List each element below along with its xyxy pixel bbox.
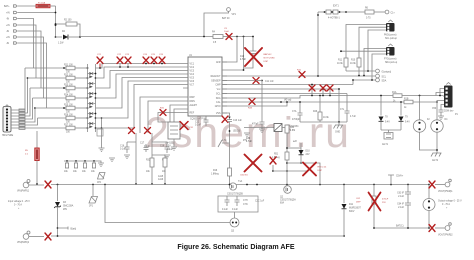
svg-text:DNP: DNP (356, 202, 361, 204)
svg-text:R44: R44 (290, 127, 295, 129)
svg-text:470pF: 470pF (252, 124, 259, 126)
svg-text:24V: 24V (306, 154, 311, 156)
svg-text:C7H: C7H (243, 200, 248, 202)
diode D12 small (218, 140, 230, 147)
wire scl conn pin3 (368, 30, 386, 71)
svg-text:AGT2: AGT2 (432, 159, 439, 162)
fuse F3 (crossed) (429, 181, 435, 188)
svg-text:R46: R46 (313, 111, 318, 113)
resistor R23 row3 (30, 85, 88, 94)
wire P1 pin4 (437, 101, 444, 103)
svg-text:CSD17576Q5A: CSD17576Q5A (280, 199, 296, 202)
fuse F4 (crossed) (429, 225, 435, 232)
resistor R27 row7 (64, 125, 88, 134)
svg-text:4.7uF: 4.7uF (240, 59, 246, 61)
crossed resistor R52 (270, 157, 276, 172)
svg-text:DNP: DNP (264, 61, 269, 63)
wire gpio bus (222, 102, 287, 106)
capacitor C7L (340, 94, 356, 123)
capacitor row C61-C64 (64, 160, 101, 173)
svg-text:C16: C16 (120, 146, 125, 148)
wire cal bus (222, 101, 437, 103)
svg-text:9.4V: 9.4V (405, 122, 410, 124)
svg-text:R53 2.2k: R53 2.2k (318, 167, 328, 169)
capacitor C16 (120, 142, 136, 159)
resistor R1B (404, 99, 413, 110)
connector P6G SCL pull-up (384, 20, 398, 40)
svg-text:0 - 70 A: 0 - 70 A (442, 203, 450, 206)
wire U1 dmn (148, 101, 183, 133)
isolator U2 (244, 124, 299, 132)
wire main mid bus (51, 184, 429, 186)
motor M3 output (423, 185, 462, 229)
svg-text:VC7: VC7 (190, 85, 195, 87)
connector J3 top-left pins (4, 5, 17, 45)
resistor R45 (313, 95, 329, 122)
svg-text:D10: D10 (306, 151, 311, 153)
svg-text:C13 1uF: C13 1uF (233, 120, 242, 122)
svg-text:VC5: VC5 (190, 78, 195, 80)
svg-text:470uF: 470uF (382, 199, 389, 201)
capacitor C13 (crossed) (222, 116, 242, 185)
wire P1 pin2 (436, 93, 444, 96)
resistor array RN1 (19, 109, 25, 129)
motor M2 (431, 102, 448, 132)
wire fan row3 to U1 (96, 71, 184, 89)
svg-text:C64 IF: C64 IF (397, 204, 404, 206)
wire j2-7 (11, 127, 64, 129)
wire AVR to rail (222, 37, 237, 63)
svg-text:LM4132: LM4132 (165, 143, 174, 145)
svg-text:GPIO: GPIO (215, 106, 221, 108)
svg-text:4.7uF: 4.7uF (350, 116, 356, 118)
svg-text:HRG7SRE: HRG7SRE (2, 135, 14, 137)
svg-text:VIN(PWR)1: VIN(PWR)1 (17, 191, 30, 193)
capacitor C43 (crossed) (327, 85, 333, 96)
wire fan row7 to U1 (96, 85, 184, 129)
capacitor C17 (140, 143, 150, 153)
wire cap C11 vertical (261, 81, 263, 123)
svg-text:SDA: SDA (382, 80, 387, 83)
resistor R21 row1 (25, 65, 88, 74)
capacitor C15 (crossed) (145, 128, 151, 134)
svg-text:9.4V: 9.4V (385, 122, 390, 124)
wire sda conn pin2 (341, 50, 386, 52)
wire sda conn pin1 (364, 49, 386, 76)
capacitor C21 (crossed) (97, 54, 103, 69)
wire pin2 bus (18, 12, 56, 14)
svg-text:28V: 28V (63, 209, 68, 211)
wire scl conn pin2 (359, 27, 386, 58)
resistor R11 (337, 58, 348, 71)
wire j2-1 (11, 68, 25, 110)
wire to VOUT- (435, 227, 445, 229)
wire bottom bus (51, 235, 344, 237)
svg-text:R16: R16 (213, 170, 218, 172)
vertical net V+ (55, 6, 57, 37)
svg-text:VC1: VC1 (190, 64, 195, 66)
svg-text:VOUT(PWR)2: VOUT(PWR)2 (438, 235, 453, 237)
diode ladder diodes (88, 72, 97, 129)
svg-text:ALERT: ALERT (190, 104, 198, 107)
resistor R1A (392, 91, 402, 103)
svg-text:C5VA+: C5VA+ (396, 175, 404, 178)
wire SDA out (352, 78, 387, 84)
svg-text:C18: C18 (160, 146, 165, 148)
connector J2 bottom-left (2, 105, 14, 137)
diode D1 (56, 31, 81, 45)
resistor R33 (152, 155, 167, 185)
wire to R5 (36, 131, 38, 148)
svg-text:C11 1nF: C11 1nF (265, 81, 274, 83)
wire sda bus (222, 96, 443, 99)
resistor R51 (272, 133, 289, 185)
svg-text:SDA pull-up: SDA pull-up (385, 61, 398, 64)
wire main top rail (80, 36, 213, 38)
svg-text:VSS: VSS (216, 113, 221, 115)
diode D11 MUR1560 (342, 185, 362, 237)
input voltage note (8, 200, 30, 210)
capacitor C50 + ground (432, 105, 444, 120)
svg-text:+IN: +IN (6, 25, 10, 27)
svg-text:4700pF: 4700pF (292, 119, 300, 121)
svg-text:C10: C10 (240, 56, 245, 58)
capacitor C26 (crossed) (159, 54, 165, 64)
wire vcc bus (222, 88, 339, 90)
resistor R26 row6 (38, 115, 89, 124)
top right rail (318, 6, 395, 20)
transistor Q2 (280, 186, 296, 205)
wire vss down (222, 113, 230, 117)
wire REGOUT rail (222, 37, 244, 71)
resistor R25 row5 (35, 105, 88, 114)
svg-text:D2W dev: D2W dev (444, 111, 454, 113)
ground under C11 (259, 129, 265, 133)
wire pin6 (18, 37, 44, 98)
svg-text:VP1: VP1 (232, 14, 237, 16)
crossed cap C62 (356, 185, 389, 229)
svg-text:(SD18): (SD18) (233, 131, 241, 133)
svg-text:4.7uF: 4.7uF (246, 141, 252, 143)
svg-text:GND: GND (335, 132, 340, 134)
svg-text:2.1uF: 2.1uF (398, 207, 404, 209)
ground mid (slanted) (334, 122, 344, 134)
fuse F1 (red highlighted) (36, 1, 56, 7)
svg-text:SCL: SCL (382, 77, 387, 79)
svg-text:SDA: SDA (216, 97, 221, 100)
motor M1 (413, 96, 430, 133)
svg-text:1.8M: 1.8M (290, 130, 295, 132)
svg-text:P6G(comm): P6G(comm) (384, 35, 397, 37)
svg-text:DMP: DMP (190, 97, 196, 99)
resistor R32 (146, 158, 154, 173)
battery terminal VBAT (203, 8, 236, 38)
svg-text:+IN: +IN (6, 37, 10, 39)
diode ladder extra diodes (89, 75, 93, 128)
ground rail mid (300, 89, 347, 122)
svg-text:VC6: VC6 (190, 81, 195, 83)
resistor R43 (crossed) (248, 99, 255, 110)
svg-text:Figure 26. Schematic Diagram A: Figure 26. Schematic Diagram AFE (177, 243, 294, 251)
svg-text:10.9k: 10.9k (337, 63, 343, 65)
svg-text:C60 NU: C60 NU (240, 175, 248, 177)
svg-text:C17: C17 (140, 143, 145, 145)
svg-text:VC3: VC3 (190, 71, 195, 73)
wire pin1 to fuse (18, 5, 36, 7)
svg-text:Input voltage 0 - 25 V: Input voltage 0 - 25 V (8, 200, 30, 203)
zener D8 (379, 95, 391, 130)
svg-text:AVR: AVR (216, 61, 221, 64)
buzzer Y1 (381, 130, 401, 146)
wire fan row2 to U1 (96, 67, 184, 78)
output terminal VOUT- (438, 223, 453, 237)
wire gate net (273, 163, 320, 185)
svg-text:SCL: SCL (216, 94, 221, 96)
svg-text:C12: C12 (195, 122, 200, 124)
ground mid-low (243, 133, 250, 142)
svg-text:C63 IF: C63 IF (397, 193, 404, 195)
svg-text:0.1uF: 0.1uF (232, 209, 238, 211)
svg-text:BAT54C: BAT54C (264, 53, 273, 56)
svg-text:25V: 25V (382, 202, 386, 204)
wire U1 gpio2 (174, 109, 183, 122)
svg-text:CAL: CAL (216, 101, 221, 104)
svg-text:10.9k: 10.9k (323, 117, 329, 119)
svg-text:(40 ua): (40 ua) (284, 100, 292, 102)
svg-text:1.2W: 1.2W (58, 43, 64, 45)
svg-text:0.1uF: 0.1uF (195, 125, 201, 127)
svg-text:R10: R10 (351, 60, 356, 62)
svg-text:0 - 70 A: 0 - 70 A (14, 204, 22, 207)
voltage ref U3 (165, 122, 180, 148)
resistor R16 (211, 168, 232, 176)
svg-text:CSD17576Q5B: CSD17576Q5B (227, 194, 243, 196)
svg-text:B(att): B(att) (71, 228, 77, 231)
wire j2-4 (11, 98, 33, 119)
big crossed cap C60 (240, 138, 262, 177)
wire ladder output column (101, 117, 103, 148)
resistor R2 top (55, 20, 80, 37)
ground motors (slanted) (431, 153, 442, 162)
wire ext vertical (317, 12, 319, 76)
transistor Q1 (227, 180, 243, 196)
capacitor C63 (397, 185, 411, 229)
wire fan row5 to U1 (96, 78, 184, 109)
crossed resistor R53 (303, 163, 327, 176)
svg-text:-IN: -IN (6, 43, 9, 45)
svg-text:10.9k: 10.9k (350, 63, 356, 65)
svg-text:C50: C50 (432, 108, 437, 110)
connector P7G SDA pull-up (384, 44, 398, 64)
svg-text:R51: R51 (274, 154, 279, 156)
svg-text:10uF: 10uF (224, 31, 230, 33)
wire sensep bus (222, 80, 256, 82)
svg-text:VOUT(PWR)1: VOUT(PWR)1 (438, 191, 453, 193)
diode ladder bus left (87, 64, 89, 132)
wire j2-6 (11, 118, 38, 125)
svg-text:-IN: -IN (6, 31, 9, 33)
svg-text:C2C 1uF: C2C 1uF (255, 201, 265, 203)
wire P1 pin1 (440, 89, 444, 96)
capacitor C23 (crossed) (125, 54, 131, 68)
resistor R10 (350, 58, 361, 76)
wire to VOUT+ (435, 184, 445, 186)
diode ladder bus right (95, 64, 97, 132)
wire pin7 (18, 43, 47, 108)
wire cmp bus (222, 84, 353, 86)
wire motors to ground (420, 132, 438, 153)
connector P1 (444, 83, 459, 117)
svg-text:0.75: 0.75 (366, 18, 371, 20)
svg-text:600V: 600V (349, 211, 355, 213)
svg-text:VIN(PWR)2: VIN(PWR)2 (17, 242, 30, 244)
wire U1 ref (158, 113, 183, 123)
wire pin3 (18, 19, 34, 69)
resistor R24 row4 (33, 95, 89, 104)
wire fan row6 to U1 (96, 81, 184, 118)
svg-text:A115: A115 (158, 175, 164, 178)
svg-text:AGT1: AGT1 (382, 143, 389, 146)
resistor R22 row2 (28, 75, 89, 84)
svg-text:REGOUT: REGOUT (211, 76, 221, 78)
resistor R5 (red highlighted) (25, 148, 39, 185)
resistor R42 (crossed) (253, 78, 259, 84)
fuse F2 (crossed) (45, 181, 51, 188)
capacitor C24 (crossed) (143, 54, 149, 64)
bottom right bus (374, 227, 428, 229)
svg-text:VC2: VC2 (190, 67, 195, 69)
jumper JP2 (97, 173, 105, 185)
svg-text:VC4: VC4 (190, 74, 195, 76)
snubber box C71 C72 (218, 196, 258, 218)
capacitor C11 (252, 122, 265, 129)
svg-text:MUR1560T: MUR1560T (349, 208, 361, 210)
zener D9 (399, 101, 411, 130)
crossed ref cap (180, 122, 194, 130)
input terminal VIN- (17, 231, 44, 244)
wire U1 alert (170, 105, 183, 122)
svg-text:60A: 60A (280, 202, 285, 205)
svg-text:C7A: C7A (292, 110, 297, 113)
svg-text:NOT USED: NOT USED (264, 58, 276, 60)
capacitor C22 (crossed) (117, 54, 123, 68)
svg-text:A116: A116 (158, 178, 164, 181)
resistor R41 (crossed) (297, 70, 305, 78)
svg-text:G(output): G(output) (382, 71, 392, 74)
svg-text:+IN: +IN (6, 13, 10, 15)
jumper JP1 (89, 185, 98, 208)
svg-text:SCL pull-up: SCL pull-up (385, 38, 398, 40)
svg-text:BAT+: BAT+ (4, 5, 10, 8)
capacitor C42 (crossed) (320, 85, 326, 96)
svg-text:1.8Meg: 1.8Meg (211, 174, 219, 176)
capacitor C7A (292, 101, 303, 122)
svg-text:CMP: CMP (215, 85, 221, 87)
wire regout bus (222, 75, 375, 77)
output terminal VOUT+ (438, 179, 453, 193)
op-amp U1 (AFE IC) (183, 55, 227, 121)
svg-text:C7L: C7L (340, 109, 345, 111)
capacitor C18 (152, 142, 173, 159)
svg-text:BAT 40: BAT 40 (222, 17, 230, 20)
svg-text:SMCJ28A: SMCJ28A (63, 205, 74, 208)
wire j2-2 (11, 78, 28, 113)
wire scl conn pin1 (346, 25, 386, 59)
svg-text:BAT(C): BAT(C) (396, 225, 404, 228)
svg-text:SENSEP: SENSEP (211, 81, 221, 83)
svg-text:0.1uF: 0.1uF (222, 209, 228, 211)
resistor R4 (212, 32, 253, 45)
wire fan row1 to U1 (96, 64, 184, 69)
wire G output (346, 69, 391, 73)
wire battery tap (57, 227, 77, 231)
wire fan row4 to U1 (96, 74, 184, 98)
svg-text:C7N: C7N (243, 204, 248, 206)
svg-text:4-HOT9B-1: 4-HOT9B-1 (328, 18, 340, 20)
svg-text:P7G(comm): P7G(comm) (384, 59, 397, 61)
capacitor C12 (195, 116, 209, 127)
wire SCL out (358, 74, 387, 78)
svg-text:DMN: DMN (190, 101, 196, 103)
ground ladder column (99, 148, 105, 152)
svg-text:C1+: C1+ (391, 13, 396, 15)
svg-text:R2 100: R2 100 (64, 20, 72, 22)
capacitor C10 (crossed out, big X) (240, 36, 275, 68)
crossed part X-top (224, 28, 232, 40)
ground extra mid-left (109, 158, 115, 162)
capacitor C41 (crossed) (309, 84, 315, 97)
+5V tap (388, 175, 404, 185)
wire sda conn pin3 (372, 54, 386, 80)
filter box F6 (97, 129, 103, 136)
input terminal VIN+ (17, 180, 44, 193)
wire DMP vertical (135, 133, 137, 184)
transistor Q3 (230, 201, 265, 233)
wire DMN vertical (151, 133, 153, 184)
svg-text:2.1uF: 2.1uF (398, 196, 404, 198)
svg-text:Output voltage 0 - 25 V: Output voltage 0 - 25 V (438, 200, 462, 203)
svg-text:EXT1: EXT1 (333, 6, 339, 8)
wire gate loop (105, 185, 230, 223)
wire j2-5 (11, 108, 35, 122)
zener D10 (286, 141, 310, 164)
svg-text:REF: REF (190, 113, 195, 115)
wire P1 pin3 (443, 96, 444, 97)
svg-text:DNP: DNP (318, 170, 323, 172)
capacitor C25 (crossed) (151, 54, 157, 64)
fuse F5 (crossed) (45, 233, 51, 240)
svg-text:-IN: -IN (6, 19, 9, 21)
resistor R31 (crossed) (160, 108, 166, 116)
ground under U3 (171, 139, 177, 150)
wire pin5 (18, 31, 41, 88)
resistor R44 (285, 125, 295, 133)
wire pin4 (18, 25, 36, 78)
wire U1 dmp (140, 97, 183, 133)
TVS diode D3 (54, 185, 74, 237)
capacitor C14 (crossed) (129, 128, 135, 134)
wire scl bus (222, 93, 347, 95)
svg-text:T1A: T1A (238, 180, 243, 183)
ground caps row (98, 163, 104, 167)
wire j2-3 (11, 88, 30, 116)
